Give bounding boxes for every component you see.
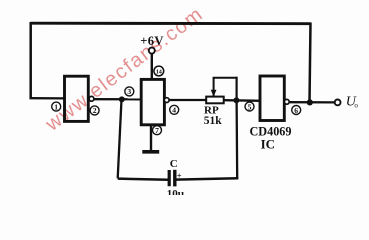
ground xyxy=(142,150,159,154)
wire gate3 to output xyxy=(289,101,335,104)
output terminal xyxy=(335,100,341,106)
RP value label xyxy=(204,104,223,126)
watermark www.elecfans.com xyxy=(41,3,208,136)
node A junction dot xyxy=(119,96,125,102)
wire power to pin 14 xyxy=(151,54,153,81)
output bubble gate 2 xyxy=(164,98,169,103)
svg-text:+6V: +6V xyxy=(140,34,164,48)
RP wiper arrow xyxy=(211,78,217,97)
wire gate2 bottom to ground xyxy=(150,125,152,152)
pin 14 xyxy=(154,66,164,76)
capacitor C right plate xyxy=(173,170,176,187)
inverter gate U1C box xyxy=(260,76,284,121)
svg-text:1: 1 xyxy=(54,102,58,111)
label Uo xyxy=(346,95,359,110)
output bubble gate 1 xyxy=(89,96,94,101)
potentiometer RP 51k body xyxy=(206,97,224,104)
wire RP to gate3 xyxy=(224,99,261,102)
svg-text:14: 14 xyxy=(156,69,162,76)
pin 7 xyxy=(153,126,162,135)
inverter gate U1A box xyxy=(65,76,89,121)
wire node B down to capacitor xyxy=(235,100,238,178)
svg-text:IC: IC xyxy=(261,136,275,151)
svg-text:3: 3 xyxy=(127,87,131,96)
svg-text:10μ: 10μ xyxy=(167,188,185,195)
pin 3 xyxy=(125,87,134,96)
svg-text:5: 5 xyxy=(248,102,252,111)
wire capacitor to node B branch xyxy=(176,178,239,179)
node out junction dot xyxy=(307,99,313,105)
pin 5 xyxy=(245,102,254,111)
svg-text:51k: 51k xyxy=(204,115,223,127)
wire gate1 to gate2 xyxy=(94,98,142,100)
wire wiper loop top xyxy=(213,77,237,79)
pin 2 xyxy=(90,106,99,115)
svg-text:6: 6 xyxy=(294,106,298,115)
capacitor C left plate xyxy=(168,170,171,186)
IC label CD4069 xyxy=(250,125,292,152)
pin 1 xyxy=(52,102,61,111)
svg-text:7: 7 xyxy=(155,126,159,135)
output bubble gate 3 xyxy=(284,99,289,104)
svg-text:4: 4 xyxy=(172,106,176,115)
wire node A down to C loop xyxy=(118,99,122,178)
node B junction dot xyxy=(233,97,239,103)
wire bottom loop xyxy=(118,179,169,180)
wire top feedback xyxy=(31,22,311,25)
wire wiper loop right down xyxy=(236,77,238,101)
wire gate2 out to RP xyxy=(169,99,207,101)
power terminal +6V xyxy=(140,34,164,53)
svg-text:o: o xyxy=(354,101,358,109)
pin 6 xyxy=(292,106,301,115)
wire left vertical xyxy=(29,22,32,99)
pin 4 xyxy=(170,105,179,114)
svg-text:C: C xyxy=(170,158,178,170)
svg-text:2: 2 xyxy=(93,106,97,115)
inverter gate U1B box xyxy=(141,79,164,124)
wire right vertical feedback xyxy=(310,23,311,103)
wire input to gate 1 xyxy=(30,97,65,100)
